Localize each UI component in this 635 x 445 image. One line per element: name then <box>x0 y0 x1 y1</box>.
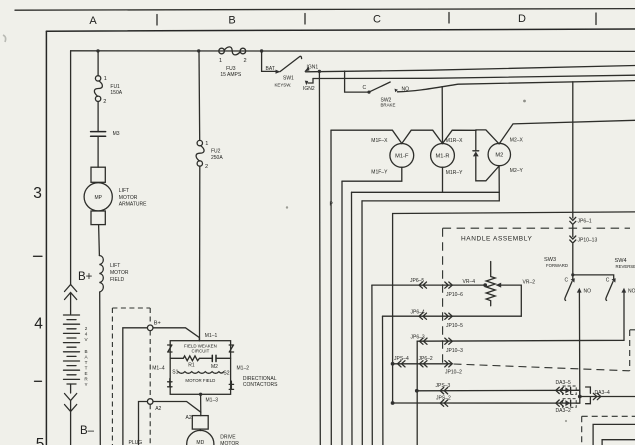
svg-text:5: 5 <box>36 436 45 445</box>
lift motor field coil <box>99 256 103 293</box>
motor field wavy winding <box>178 372 224 374</box>
wire SW4 NO down to JP10-3 row <box>417 293 624 342</box>
scan smudge top-left <box>3 35 6 42</box>
switch SW4 blade <box>606 282 613 301</box>
contact mark top-right <box>229 345 233 352</box>
IGN1 arrow <box>304 67 309 72</box>
node VR-4 junction dot <box>483 283 487 287</box>
svg-text:3: 3 <box>33 185 42 202</box>
motor MP brush box top <box>91 167 105 182</box>
svg-text:KEYSW.: KEYSW. <box>275 83 292 88</box>
svg-text:LIFT: LIFT <box>110 263 120 269</box>
resistor R1 rail <box>170 356 230 361</box>
wire B+ right to M1-1 <box>153 328 199 341</box>
contactor coil M1-F <box>390 144 414 168</box>
ruler tick <box>448 13 450 24</box>
connector JP10-13 <box>570 236 576 243</box>
battery bus vertical from top bus <box>70 51 72 285</box>
svg-text:M1–1: M1–1 <box>205 333 218 339</box>
svg-text:M1-F: M1-F <box>395 154 409 160</box>
wire brush to MD <box>199 429 201 431</box>
IGN2 arrow <box>305 81 308 86</box>
wire JP6-4 row <box>383 315 522 317</box>
svg-text:MOTOR: MOTOR <box>220 441 239 445</box>
switch SW3 blade <box>565 282 572 301</box>
node DA3-4 junction <box>578 395 582 399</box>
svg-text:15 AMPS: 15 AMPS <box>220 72 242 78</box>
wire FU2 down to field weaken box <box>199 166 201 341</box>
ruler tick <box>595 13 597 25</box>
svg-text:B: B <box>228 14 235 26</box>
battery cell stack <box>64 315 80 384</box>
wire M1-3 down <box>200 394 202 415</box>
connector JP6-3 chevrons <box>420 338 428 344</box>
BAT arrowhead <box>276 70 281 74</box>
row boundary tick <box>35 380 42 382</box>
outer border frame top <box>46 29 635 31</box>
svg-text:150A: 150A <box>110 90 122 96</box>
svg-text:JP10–6: JP10–6 <box>446 292 463 298</box>
node SW header junction <box>571 273 574 276</box>
svg-text:M2: M2 <box>211 364 218 370</box>
connector DA3-4 bracket <box>586 387 591 404</box>
svg-text:CIRCUIT: CIRCUIT <box>191 348 209 353</box>
svg-text:FU3: FU3 <box>226 66 236 72</box>
svg-text:BAT: BAT <box>266 66 275 72</box>
node BAT tap on top bus <box>260 49 263 52</box>
svg-text:A2: A2 <box>155 406 161 412</box>
svg-text:SW4: SW4 <box>615 258 627 264</box>
connector JP6-5 chevrons <box>419 282 427 288</box>
svg-text:JP6–5: JP6–5 <box>410 278 424 284</box>
svg-text:R1: R1 <box>188 362 195 368</box>
dashed wire JP10-2 to right <box>454 364 630 371</box>
plug dashed box right <box>149 308 151 445</box>
svg-text:M1F–X: M1F–X <box>371 138 388 144</box>
svg-text:JP10–13: JP10–13 <box>578 238 598 244</box>
bus wire IGN1 vertical to bottom <box>318 71 321 445</box>
node FU1 tap on top bus <box>96 49 99 52</box>
lower-right solid box inner <box>602 440 635 445</box>
svg-text:T: T <box>85 366 88 371</box>
wire between JP6-1 and JP10-13 <box>572 225 574 236</box>
wire B+ left and down <box>123 328 148 445</box>
svg-text:JP6–3: JP6–3 <box>411 334 425 340</box>
ruler tick <box>156 15 158 26</box>
svg-text:C: C <box>606 277 610 283</box>
connector JP10-3 chevrons <box>445 338 453 344</box>
ruler tick <box>304 14 306 25</box>
switch SW1 keyswitch blade <box>280 56 302 71</box>
node JPS-3 junction <box>415 389 419 393</box>
wire SW3/SW4 header <box>573 275 614 280</box>
connector JPS-2 chevrons <box>440 400 448 406</box>
wire JPS-4/JP6-2 row <box>393 363 452 365</box>
wire M2-X to right edge <box>499 120 635 144</box>
bus wire x342 to bottom <box>341 181 343 445</box>
wire MP to lift field coil <box>98 225 101 256</box>
wire FU1 to M3 <box>97 102 99 132</box>
svg-text:MOTOR: MOTOR <box>110 270 129 276</box>
node JPS-2 junction <box>391 401 395 405</box>
svg-text:2: 2 <box>103 99 106 105</box>
diode DA3-5 <box>565 387 570 393</box>
outer border frame left <box>45 31 47 445</box>
svg-text:JP10–3: JP10–3 <box>446 348 463 354</box>
wire BAT drop <box>262 51 276 71</box>
svg-text:MP: MP <box>94 195 102 201</box>
svg-text:1: 1 <box>219 58 222 64</box>
wire M3 to MP <box>97 136 99 167</box>
svg-text:VR–4: VR–4 <box>463 279 476 285</box>
motor MD circle <box>187 430 214 445</box>
wire JP6-1 horizontal <box>393 212 635 403</box>
bus wire JP6-4 down to bottom <box>382 316 384 445</box>
SW2 blade <box>369 82 390 92</box>
contact mark bottom-right <box>229 381 233 389</box>
fuse FU1 <box>94 76 102 102</box>
svg-text:DA3–2: DA3–2 <box>556 408 572 414</box>
svg-text:HANDLE ASSEMBLY: HANDLE ASSEMBLY <box>461 236 532 243</box>
battery down arrow <box>65 384 77 445</box>
svg-text:A: A <box>89 15 97 27</box>
diode DA3-2 <box>565 400 570 406</box>
svg-text:DRIVE: DRIVE <box>220 434 236 440</box>
svg-text:2: 2 <box>205 164 208 170</box>
wire SW3 NO down to DA3 junction <box>578 293 580 397</box>
node SW2 pivot <box>367 91 370 94</box>
wire JP6-3 row <box>416 340 418 342</box>
connector DA3-4 chevrons <box>593 393 601 399</box>
scan speck right <box>523 100 526 103</box>
switch SW2 brake C drop <box>345 71 368 92</box>
svg-text:B: B <box>84 349 87 354</box>
svg-text:NO: NO <box>628 289 635 295</box>
node IGN1 bus tap <box>318 70 321 73</box>
svg-text:PLUG: PLUG <box>129 440 143 445</box>
fuse FU2 <box>196 140 204 166</box>
field weaken circuit box <box>170 341 230 395</box>
svg-text:M1R–X: M1R–X <box>446 138 463 144</box>
bus wire JP6-3 down to bottom <box>416 341 418 445</box>
svg-text:CONTACTORS: CONTACTORS <box>243 382 278 388</box>
svg-text:REVERSE: REVERSE <box>616 264 635 269</box>
connector JP10-5 chevrons <box>445 313 453 319</box>
connector JP6-4 chevrons <box>419 313 427 319</box>
ruler line top <box>15 9 635 11</box>
wire A2 left and down <box>139 402 148 445</box>
svg-text:E: E <box>84 371 87 376</box>
node B+ terminal circle <box>147 325 153 331</box>
scan speck mid <box>286 206 288 208</box>
contact mark top-left <box>168 345 172 352</box>
wire JP6-1 vertical from brake NO <box>572 82 574 218</box>
svg-text:M2–X: M2–X <box>510 138 524 144</box>
svg-text:Y: Y <box>84 382 87 387</box>
bus wire JP6-5 down to bottom <box>371 285 373 445</box>
svg-text:JPS–2: JPS–2 <box>436 396 451 402</box>
svg-text:FIELD: FIELD <box>110 277 125 283</box>
contactor coil M1-R <box>431 144 455 168</box>
connector JPS-3 chevrons <box>440 388 448 394</box>
plug dashed box left <box>111 308 113 445</box>
fuse FU3 <box>219 47 246 55</box>
wire M1F-Y down-left <box>342 167 402 181</box>
wire A2 right to motor <box>153 402 201 413</box>
potentiometer VR-4 <box>486 262 495 306</box>
plug dashed box top <box>112 307 150 309</box>
svg-text:DA3–4: DA3–4 <box>595 390 611 396</box>
wire DA3-5 to junction <box>576 390 580 396</box>
VR wiper arrow <box>496 283 502 288</box>
SW4 NO terminal arrow <box>621 288 626 293</box>
svg-text:FORWARD: FORWARD <box>546 263 568 268</box>
svg-text:IGN1: IGN1 <box>307 65 319 71</box>
svg-text:M1F–Y: M1F–Y <box>371 169 388 175</box>
wire NO to right edge <box>398 81 635 92</box>
SW3 NO terminal arrow <box>577 288 582 293</box>
svg-text:JPS–4: JPS–4 <box>394 356 409 362</box>
wire JP10-13 down to SW3/SW4 <box>572 244 574 275</box>
svg-text:T: T <box>85 360 88 365</box>
svg-text:D: D <box>518 13 526 25</box>
svg-text:250A: 250A <box>211 155 223 161</box>
capacitor M2 in box <box>211 355 213 361</box>
svg-text:1: 1 <box>104 76 107 82</box>
svg-text:MD: MD <box>196 440 204 445</box>
contactor coil M2 <box>488 143 510 165</box>
wire coil header left segment <box>331 130 476 143</box>
node FU2 tap on top bus <box>197 49 200 52</box>
svg-text:B+: B+ <box>154 320 161 326</box>
svg-text:JP6–1: JP6–1 <box>578 218 592 224</box>
svg-text:JP6–4: JP6–4 <box>411 309 425 315</box>
svg-text:4: 4 <box>85 332 88 337</box>
drive motor brush box <box>192 416 208 430</box>
svg-text:M1–4: M1–4 <box>152 365 165 371</box>
wire lift field to bottom edge <box>99 292 102 445</box>
svg-text:JP10–5: JP10–5 <box>446 323 463 329</box>
node A2 terminal circle <box>147 399 153 405</box>
switch SW4 C terminal <box>612 278 616 282</box>
wire DA3-4 out <box>580 396 635 398</box>
svg-text:2: 2 <box>244 58 247 64</box>
M2 bypass frame with diode <box>476 130 499 181</box>
lower-right dashed assembly box <box>582 416 635 445</box>
wire IGN1 to right edge <box>306 66 635 72</box>
svg-text:A2: A2 <box>186 415 192 421</box>
svg-text:B+: B+ <box>78 271 93 283</box>
wire to FU2 <box>198 51 201 140</box>
bus wire x331 to bottom <box>330 130 332 445</box>
wire DA3-2 to junction <box>576 397 580 404</box>
handle assembly dashed box <box>443 227 630 229</box>
contact mark bottom-left <box>168 379 172 387</box>
svg-text:M1–2: M1–2 <box>237 365 250 371</box>
bus wire x351.5 to bottom <box>351 192 354 445</box>
wire VR-2 wiper to JP10-5 row <box>501 285 522 316</box>
svg-text:M1–3: M1–3 <box>206 398 219 404</box>
switch SW3 C terminal <box>572 275 574 280</box>
svg-text:M1R–Y: M1R–Y <box>446 170 463 176</box>
svg-text:M2: M2 <box>495 153 503 159</box>
svg-text:MOTOR FIELD: MOTOR FIELD <box>185 378 215 383</box>
svg-text:JP10–2: JP10–2 <box>445 369 462 375</box>
wire NO branch down to M1R coil <box>441 87 443 144</box>
wire M1R-Y down-left <box>352 167 443 192</box>
wire JPS-3/DA3-5 row <box>417 389 580 392</box>
wire M1R-Y segment to M2 bottom <box>443 191 500 193</box>
wire JP6-5 row <box>372 284 485 286</box>
IGN2 hook wire <box>308 79 313 84</box>
svg-text:C: C <box>565 277 569 283</box>
svg-text:JP6–2: JP6–2 <box>419 356 433 362</box>
connector JP6-2 chevrons <box>420 361 428 367</box>
svg-text:C: C <box>373 14 381 26</box>
node M1-3 box exit <box>199 393 202 396</box>
svg-text:C: C <box>363 85 367 91</box>
svg-text:NO: NO <box>584 289 592 295</box>
connector DA3-5 chevrons <box>556 387 564 393</box>
svg-text:S1: S1 <box>172 370 178 376</box>
node JPS-4 junction <box>391 362 395 366</box>
svg-text:JPS–3: JPS–3 <box>436 383 451 389</box>
bus wire x362 to bottom <box>361 201 363 445</box>
battery up arrow <box>65 285 77 315</box>
wire to FU1 <box>97 51 99 76</box>
row boundary tick <box>34 255 43 257</box>
svg-text:ARMATURE: ARMATURE <box>119 202 147 208</box>
svg-text:FU2: FU2 <box>211 149 221 155</box>
svg-text:2: 2 <box>85 326 88 331</box>
wire IGN2 to right edge <box>313 75 635 78</box>
SW2 NO arrow <box>395 89 399 93</box>
svg-text:S2: S2 <box>223 370 229 376</box>
svg-text:B–: B– <box>80 425 95 437</box>
wire JPS-2/DA3-2 row <box>393 402 580 404</box>
connector JP10-2 chevrons <box>445 361 453 367</box>
connector JP6-1 <box>570 217 576 224</box>
svg-text:BRAKE: BRAKE <box>381 103 396 108</box>
svg-text:MOTOR: MOTOR <box>119 195 138 201</box>
svg-text:M2–Y: M2–Y <box>510 168 524 174</box>
svg-text:1: 1 <box>205 141 208 147</box>
main top bus wire <box>71 50 635 53</box>
connector JP10-6 chevrons <box>445 282 453 288</box>
wire M2-Y down-left <box>362 166 499 201</box>
diode across M2 <box>473 151 479 156</box>
svg-text:SW1: SW1 <box>283 76 294 82</box>
svg-text:IGN2: IGN2 <box>303 86 315 92</box>
svg-text:4: 4 <box>34 316 43 333</box>
svg-text:M1-R: M1-R <box>436 154 450 160</box>
svg-text:LIFT: LIFT <box>119 188 129 194</box>
connector DA3-2 chevrons <box>556 400 564 406</box>
svg-text:DA3–5: DA3–5 <box>556 380 572 386</box>
connector JPS-4 chevrons <box>398 361 406 367</box>
scan speck lower <box>565 420 567 422</box>
lower-right solid box outer <box>593 424 635 445</box>
svg-text:M3: M3 <box>113 131 120 137</box>
capacitor M3 <box>91 131 106 133</box>
motor MP armature circle <box>84 183 112 211</box>
motor MP brush box bottom <box>91 211 105 225</box>
svg-text:VR–2: VR–2 <box>523 280 536 286</box>
